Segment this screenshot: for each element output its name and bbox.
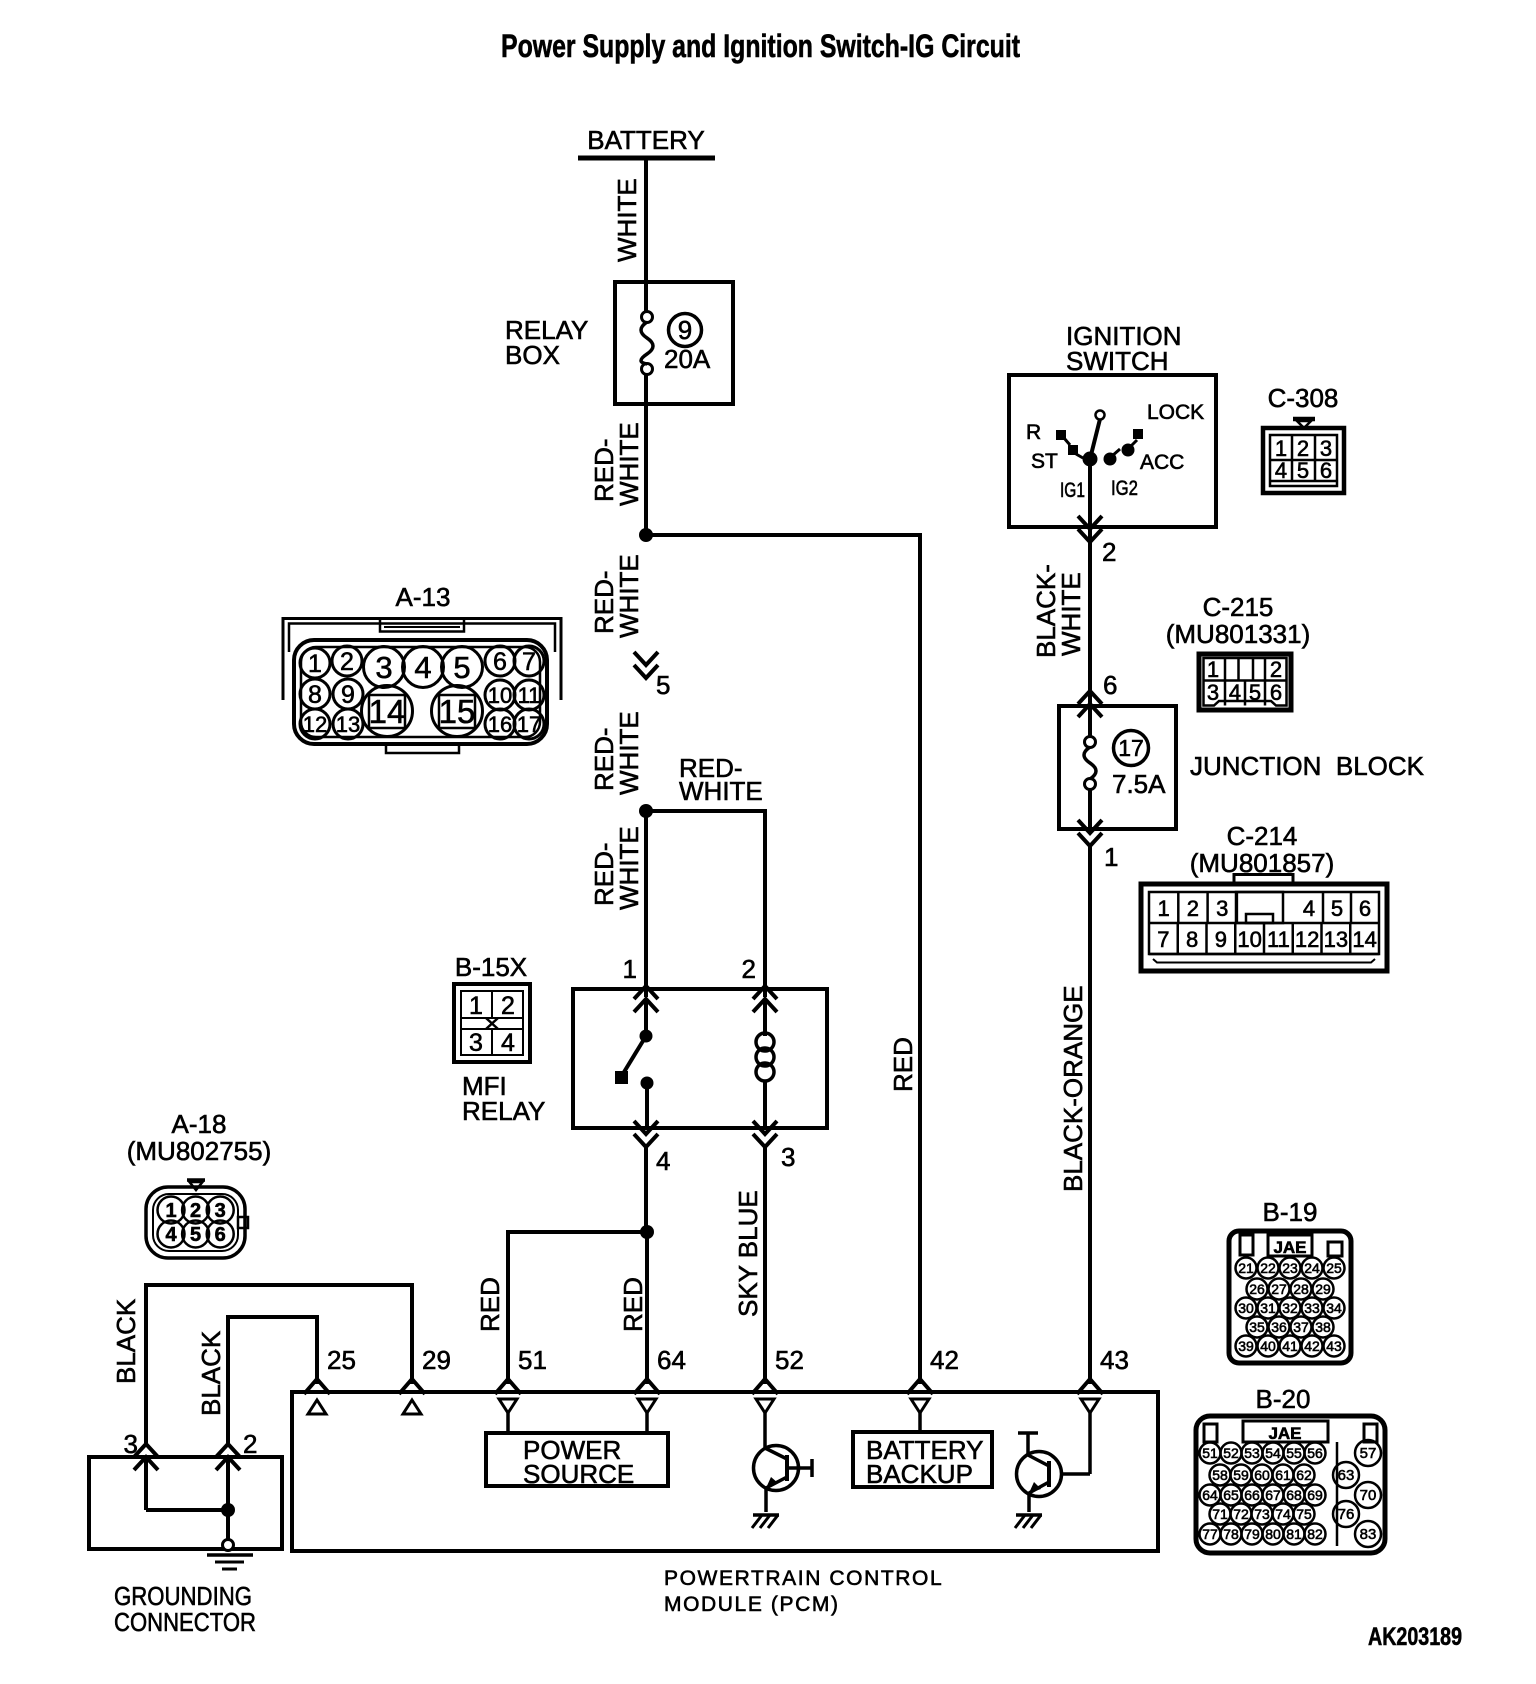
- svg-text:R: R: [1026, 421, 1041, 444]
- svg-text:BOX: BOX: [505, 340, 560, 370]
- svg-text:13: 13: [336, 712, 360, 737]
- svg-text:81: 81: [1286, 1526, 1302, 1542]
- svg-text:7: 7: [1157, 927, 1169, 952]
- svg-text:1: 1: [623, 954, 637, 984]
- svg-text:RED: RED: [475, 1277, 505, 1332]
- svg-text:WHITE: WHITE: [614, 711, 644, 795]
- svg-text:B-19: B-19: [1263, 1197, 1318, 1227]
- junction block pin 6 arrow: [1078, 670, 1117, 717]
- svg-text:WHITE: WHITE: [679, 776, 763, 806]
- PCM pin 42: [907, 1345, 959, 1413]
- svg-text:35: 35: [1249, 1319, 1265, 1335]
- svg-text:(MU802755): (MU802755): [127, 1136, 272, 1166]
- svg-text:25: 25: [327, 1345, 356, 1375]
- wire segment RED-WHITE below arrow 5: [589, 711, 644, 795]
- svg-text:WHITE: WHITE: [614, 422, 644, 506]
- svg-text:83: 83: [1360, 1526, 1377, 1543]
- svg-text:65: 65: [1223, 1487, 1239, 1503]
- svg-text:BLACK: BLACK: [111, 1298, 141, 1384]
- MFI relay switch contact: [615, 999, 654, 1128]
- svg-text:2: 2: [243, 1429, 257, 1459]
- grounding connector pin 2: [216, 1429, 257, 1470]
- svg-text:61: 61: [1275, 1467, 1291, 1483]
- svg-text:76: 76: [1338, 1506, 1355, 1523]
- PCM pin 64: [634, 1345, 686, 1413]
- svg-text:C-308: C-308: [1268, 383, 1339, 413]
- svg-text:BLACK: BLACK: [196, 1330, 226, 1416]
- svg-text:A-13: A-13: [396, 582, 451, 612]
- svg-text:11: 11: [1267, 927, 1290, 952]
- node J3 junction dot: [640, 1225, 654, 1239]
- svg-text:10: 10: [488, 683, 512, 708]
- svg-text:5: 5: [1249, 680, 1261, 705]
- wire MFI pin 4 to node J3, RED: [644, 1147, 648, 1232]
- connector A-18 (MU802755): [127, 1109, 272, 1258]
- svg-text:53: 53: [1244, 1445, 1260, 1461]
- svg-text:74: 74: [1275, 1506, 1291, 1522]
- svg-text:54: 54: [1265, 1445, 1281, 1461]
- svg-text:43: 43: [1100, 1345, 1129, 1375]
- svg-text:14: 14: [1352, 927, 1376, 952]
- svg-text:POWERTRAIN CONTROL: POWERTRAIN CONTROL: [664, 1567, 943, 1590]
- svg-text:5: 5: [1297, 458, 1309, 483]
- grounding connector internal wires: [146, 1457, 235, 1540]
- svg-text:3: 3: [469, 1029, 483, 1057]
- svg-text:41: 41: [1282, 1338, 1298, 1354]
- svg-text:2: 2: [742, 954, 756, 984]
- svg-text:AK203189: AK203189: [1368, 1623, 1462, 1651]
- junction block pin 1 arrow: [1078, 820, 1118, 872]
- svg-text:3: 3: [1207, 680, 1219, 705]
- svg-text:2: 2: [190, 1200, 201, 1222]
- svg-text:WHITE: WHITE: [1056, 572, 1086, 656]
- svg-text:37: 37: [1293, 1319, 1309, 1335]
- connector C-215 (MU801331): [1166, 592, 1311, 710]
- svg-text:70: 70: [1360, 1487, 1377, 1504]
- svg-text:67: 67: [1265, 1487, 1281, 1503]
- grounding connector pin 3: [124, 1429, 158, 1470]
- svg-text:57: 57: [1360, 1445, 1377, 1462]
- svg-text:73: 73: [1254, 1506, 1270, 1522]
- svg-text:C-214: C-214: [1227, 821, 1298, 851]
- svg-text:RED: RED: [618, 1277, 648, 1332]
- wire J3 to PCM pin 64, RED: [618, 1232, 648, 1384]
- svg-text:21: 21: [1238, 1260, 1254, 1276]
- svg-text:51: 51: [1202, 1445, 1218, 1461]
- svg-text:33: 33: [1304, 1300, 1320, 1316]
- wire junction block to PCM pin 43, BLACK-ORANGE: [1058, 846, 1090, 1384]
- svg-text:JUNCTION BLOCK: JUNCTION BLOCK: [1190, 751, 1425, 781]
- svg-text:4: 4: [1229, 680, 1241, 705]
- svg-text:39: 39: [1238, 1338, 1254, 1354]
- svg-text:42: 42: [1304, 1338, 1320, 1354]
- svg-text:14: 14: [369, 693, 406, 730]
- MFI relay pin 2: [742, 954, 777, 1012]
- svg-text:CONNECTOR: CONNECTOR: [114, 1607, 256, 1637]
- svg-text:B-15X: B-15X: [455, 952, 527, 982]
- svg-text:8: 8: [308, 681, 322, 709]
- svg-text:1: 1: [1207, 657, 1219, 682]
- wire battery to relay box, WHITE: [612, 158, 646, 284]
- battery backup block: [853, 1413, 992, 1489]
- svg-text:5: 5: [453, 650, 470, 685]
- svg-text:4: 4: [1275, 458, 1287, 483]
- svg-text:4: 4: [414, 650, 431, 685]
- svg-text:79: 79: [1244, 1526, 1260, 1542]
- svg-text:4: 4: [1303, 896, 1315, 921]
- connector B-15X: [454, 952, 530, 1062]
- wire relay box to node J1, RED-WHITE: [589, 404, 646, 535]
- ignition switch rotary contacts: [1026, 401, 1204, 502]
- svg-text:51: 51: [518, 1345, 547, 1375]
- svg-text:1: 1: [1104, 842, 1118, 872]
- svg-text:WHITE: WHITE: [612, 178, 642, 262]
- svg-text:72: 72: [1233, 1506, 1249, 1522]
- svg-text:6: 6: [1359, 896, 1371, 921]
- MFI relay pin 4: [634, 1121, 670, 1176]
- svg-text:C-215: C-215: [1203, 592, 1274, 622]
- PCM pin 25: [304, 1345, 356, 1414]
- connector B-20: [1196, 1384, 1385, 1553]
- svg-text:71: 71: [1212, 1506, 1228, 1522]
- svg-text:52: 52: [1223, 1445, 1239, 1461]
- connector C-308: [1263, 383, 1344, 493]
- svg-text:12: 12: [303, 712, 327, 737]
- svg-text:66: 66: [1244, 1487, 1260, 1503]
- transistor Q2 (pin 43 driver): [1017, 1413, 1091, 1512]
- svg-text:RED: RED: [888, 1037, 918, 1092]
- svg-text:SWITCH: SWITCH: [1066, 346, 1169, 376]
- wire MFI pin 3 to PCM pin 52, SKY BLUE: [733, 1147, 765, 1384]
- svg-text:5: 5: [190, 1224, 201, 1246]
- svg-text:56: 56: [1307, 1445, 1323, 1461]
- svg-text:WHITE: WHITE: [614, 554, 644, 638]
- svg-text:32: 32: [1282, 1300, 1298, 1316]
- svg-text:6: 6: [215, 1224, 226, 1246]
- MFI relay pin 3: [753, 1121, 795, 1172]
- ground symbol: [207, 1540, 253, 1570]
- svg-text:3: 3: [375, 650, 392, 685]
- wire grounding pin 2 riser, BLACK: [196, 1317, 317, 1443]
- svg-text:1: 1: [1157, 896, 1169, 921]
- svg-text:24: 24: [1304, 1260, 1320, 1276]
- MFI relay pin 1: [623, 954, 658, 1012]
- svg-text:10: 10: [1237, 927, 1261, 952]
- svg-text:JAE: JAE: [1273, 1238, 1306, 1257]
- ground symbol under Q1: [752, 1515, 779, 1528]
- svg-text:30: 30: [1238, 1300, 1254, 1316]
- svg-text:26: 26: [1249, 1281, 1265, 1297]
- svg-text:(MU801331): (MU801331): [1166, 619, 1311, 649]
- svg-text:12: 12: [1295, 927, 1319, 952]
- svg-text:11: 11: [518, 683, 541, 708]
- PCM pin 52: [752, 1345, 804, 1413]
- svg-text:43: 43: [1326, 1338, 1342, 1354]
- svg-text:22: 22: [1260, 1260, 1276, 1276]
- svg-text:4: 4: [656, 1146, 670, 1176]
- svg-text:52: 52: [775, 1345, 804, 1375]
- svg-text:ACC: ACC: [1140, 451, 1184, 474]
- svg-text:62: 62: [1296, 1467, 1312, 1483]
- svg-text:2: 2: [1270, 657, 1282, 682]
- svg-text:6: 6: [1103, 670, 1117, 700]
- svg-text:A-18: A-18: [172, 1109, 227, 1139]
- wire grounding pin 3 riser, BLACK: [111, 1285, 412, 1443]
- svg-text:5: 5: [656, 670, 670, 700]
- svg-text:4: 4: [501, 1029, 515, 1057]
- svg-text:9: 9: [1215, 927, 1227, 952]
- grounding connector box: [89, 1457, 282, 1637]
- svg-text:Power Supply and Ignition Swit: Power Supply and Ignition Switch-IG Circ…: [501, 28, 1020, 64]
- svg-text:36: 36: [1271, 1319, 1287, 1335]
- fuse 9 20A in relay box: [641, 282, 711, 404]
- svg-text:38: 38: [1315, 1319, 1331, 1335]
- svg-text:MODULE (PCM): MODULE (PCM): [664, 1593, 840, 1616]
- svg-text:59: 59: [1233, 1467, 1249, 1483]
- svg-text:64: 64: [1202, 1487, 1218, 1503]
- svg-text:63: 63: [1338, 1467, 1355, 1484]
- svg-text:3: 3: [215, 1200, 226, 1222]
- junction block box: [1059, 706, 1425, 829]
- PCM pin 43: [1077, 1345, 1129, 1413]
- svg-text:25: 25: [1326, 1260, 1342, 1276]
- svg-text:78: 78: [1223, 1526, 1239, 1542]
- svg-text:16: 16: [488, 712, 512, 737]
- svg-text:20A: 20A: [664, 344, 711, 374]
- MFI relay coil: [756, 999, 774, 1128]
- ignition switch box: [1009, 321, 1216, 527]
- svg-text:2: 2: [501, 992, 515, 1020]
- wire J2 to MFI relay pin 2, RED-WHITE: [646, 753, 765, 997]
- power source block: [486, 1413, 668, 1489]
- svg-text:75: 75: [1296, 1506, 1312, 1522]
- svg-text:28: 28: [1293, 1281, 1309, 1297]
- svg-text:ST: ST: [1031, 450, 1058, 473]
- connector A-13: [283, 582, 561, 753]
- svg-text:BATTERY: BATTERY: [587, 125, 705, 155]
- inline connector arrow pin 5: [634, 652, 670, 700]
- svg-text:42: 42: [930, 1345, 959, 1375]
- svg-text:1: 1: [165, 1200, 176, 1222]
- svg-text:15: 15: [439, 693, 476, 730]
- svg-text:8: 8: [1186, 927, 1198, 952]
- svg-text:3: 3: [1216, 896, 1228, 921]
- svg-text:SKY BLUE: SKY BLUE: [733, 1190, 763, 1317]
- svg-text:64: 64: [657, 1345, 686, 1375]
- wire segment RED-WHITE above arrow 5: [589, 554, 644, 638]
- svg-text:LOCK: LOCK: [1147, 401, 1204, 424]
- svg-text:80: 80: [1265, 1526, 1281, 1542]
- svg-text:JAE: JAE: [1268, 1424, 1301, 1443]
- svg-text:SOURCE: SOURCE: [523, 1459, 634, 1489]
- svg-text:BACKUP: BACKUP: [866, 1459, 973, 1489]
- svg-text:IG2: IG2: [1111, 477, 1138, 500]
- svg-text:3: 3: [781, 1142, 795, 1172]
- svg-text:2: 2: [1187, 896, 1199, 921]
- svg-text:6: 6: [493, 648, 507, 676]
- powertrain control module (PCM) box: [292, 1392, 1158, 1616]
- wire ignition switch IG1 out pin 2, BLACK-WHITE: [1031, 459, 1116, 705]
- svg-text:6: 6: [1320, 458, 1332, 483]
- svg-text:77: 77: [1202, 1526, 1218, 1542]
- battery terminal BATTERY: [578, 125, 715, 158]
- svg-text:31: 31: [1260, 1300, 1276, 1316]
- svg-text:5: 5: [1331, 896, 1343, 921]
- ground symbol under Q2: [1015, 1515, 1042, 1528]
- MFI relay box: [462, 989, 827, 1128]
- svg-text:60: 60: [1254, 1467, 1270, 1483]
- svg-text:34: 34: [1326, 1300, 1342, 1316]
- svg-text:13: 13: [1324, 927, 1348, 952]
- svg-text:29: 29: [422, 1345, 451, 1375]
- svg-text:23: 23: [1282, 1260, 1298, 1276]
- svg-text:2: 2: [340, 648, 354, 676]
- PCM pin 29: [399, 1345, 451, 1414]
- svg-text:55: 55: [1286, 1445, 1302, 1461]
- svg-text:58: 58: [1212, 1467, 1228, 1483]
- svg-text:7: 7: [522, 648, 536, 676]
- svg-text:29: 29: [1315, 1281, 1331, 1297]
- svg-text:17: 17: [517, 712, 541, 737]
- svg-text:82: 82: [1307, 1526, 1323, 1542]
- svg-text:69: 69: [1307, 1487, 1323, 1503]
- connector B-19: [1229, 1197, 1351, 1363]
- transistor Q1 (pin 52 driver): [754, 1413, 813, 1512]
- svg-text:IG1: IG1: [1060, 479, 1085, 502]
- wire J2 to MFI relay pin 1, RED-WHITE: [589, 811, 646, 997]
- svg-text:BLACK-ORANGE: BLACK-ORANGE: [1058, 985, 1088, 1192]
- svg-text:4: 4: [165, 1224, 177, 1246]
- svg-text:40: 40: [1260, 1338, 1276, 1354]
- svg-text:B-20: B-20: [1256, 1384, 1311, 1414]
- svg-text:17: 17: [1118, 735, 1144, 761]
- svg-text:1: 1: [469, 992, 483, 1020]
- svg-text:WHITE: WHITE: [614, 826, 644, 910]
- node J1 junction dot: [639, 528, 653, 542]
- svg-text:1: 1: [308, 650, 322, 678]
- relay box: [505, 282, 733, 404]
- wire J3 to PCM pin 51, RED: [475, 1232, 647, 1384]
- svg-text:3: 3: [124, 1429, 138, 1459]
- connector C-214 (MU801857): [1141, 821, 1387, 971]
- wire J1 to PCM pin 42, RED: [646, 535, 920, 1384]
- svg-text:9: 9: [341, 681, 355, 709]
- fuse 17 7.5A in junction block: [1084, 706, 1166, 829]
- node J2 junction dot: [639, 804, 653, 818]
- svg-text:7.5A: 7.5A: [1112, 769, 1166, 799]
- PCM pin 51: [495, 1345, 547, 1413]
- svg-text:68: 68: [1286, 1487, 1302, 1503]
- svg-text:9: 9: [678, 315, 692, 345]
- svg-text:6: 6: [1270, 680, 1282, 705]
- svg-text:27: 27: [1271, 1281, 1287, 1297]
- svg-text:2: 2: [1102, 537, 1116, 567]
- svg-text:RELAY: RELAY: [462, 1096, 545, 1126]
